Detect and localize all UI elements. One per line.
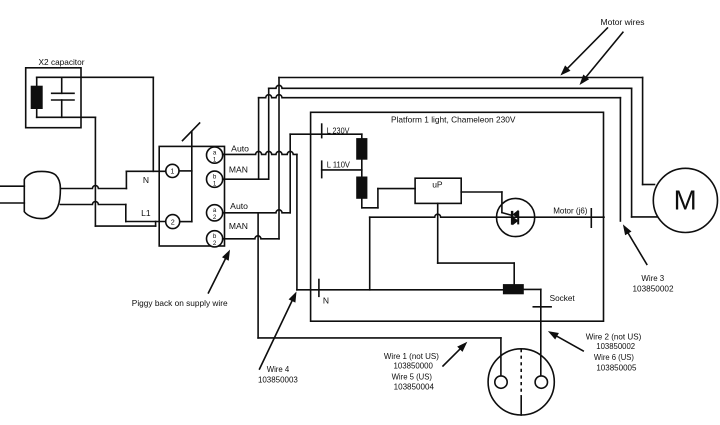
svg-text:Auto: Auto: [230, 201, 248, 211]
svg-text:Wire 1 (not US): Wire 1 (not US): [384, 351, 439, 361]
svg-text:103850005: 103850005: [596, 363, 636, 373]
svg-text:M: M: [674, 184, 697, 215]
svg-text:Piggy back on supply wire: Piggy back on supply wire: [132, 298, 228, 308]
svg-text:103850002: 103850002: [633, 284, 674, 294]
svg-text:N: N: [323, 296, 329, 306]
svg-text:Socket: Socket: [550, 293, 576, 303]
svg-text:2: 2: [213, 214, 217, 221]
svg-text:L1: L1: [141, 208, 151, 218]
svg-text:Wire 2 (not US): Wire 2 (not US): [586, 331, 642, 341]
svg-text:uP: uP: [432, 180, 443, 190]
svg-text:103850002: 103850002: [596, 341, 635, 351]
svg-text:2: 2: [171, 217, 175, 226]
svg-text:b: b: [213, 173, 217, 180]
svg-text:Motor (j6): Motor (j6): [553, 206, 587, 216]
svg-text:MAN: MAN: [229, 165, 248, 175]
svg-text:1: 1: [170, 167, 174, 176]
svg-text:Wire 5 (US): Wire 5 (US): [392, 372, 433, 382]
svg-text:MAN: MAN: [229, 221, 248, 231]
svg-text:Platform 1 light, Chameleon 23: Platform 1 light, Chameleon 230V: [391, 114, 516, 124]
svg-text:Wire 6 (US): Wire 6 (US): [594, 352, 634, 362]
svg-text:a: a: [213, 207, 217, 214]
svg-text:1: 1: [213, 180, 217, 187]
svg-text:Auto: Auto: [231, 143, 249, 153]
svg-text:103850003: 103850003: [258, 374, 298, 384]
svg-text:Motor wires: Motor wires: [601, 17, 645, 27]
svg-text:1: 1: [213, 156, 217, 163]
svg-text:103850004: 103850004: [394, 382, 435, 392]
svg-text:b: b: [213, 233, 217, 240]
svg-text:Wire 4: Wire 4: [267, 364, 290, 374]
svg-text:N: N: [143, 175, 149, 185]
svg-text:2: 2: [213, 240, 217, 247]
svg-text:L 110V: L 110V: [327, 160, 350, 170]
svg-text:Wire 3: Wire 3: [641, 273, 664, 283]
svg-text:a: a: [213, 149, 217, 156]
svg-text:X2 capacitor: X2 capacitor: [39, 57, 85, 67]
svg-text:103850000: 103850000: [394, 361, 434, 371]
